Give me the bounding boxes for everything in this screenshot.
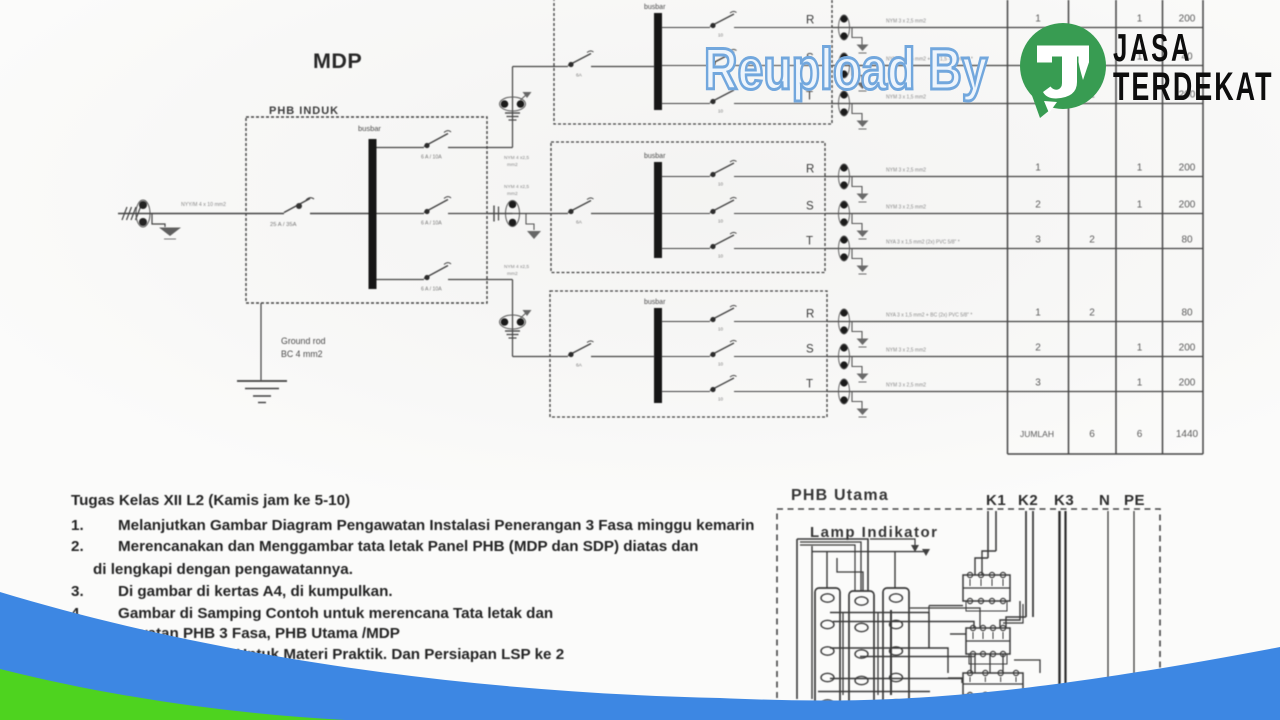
wire C1 left drop <box>928 606 930 648</box>
wire vert a <box>842 613 844 695</box>
wire lamp feed a <box>797 539 868 591</box>
wire cross 3 <box>910 608 980 628</box>
wire run to table g1 w3 <box>832 103 1203 105</box>
wire lamp feed d <box>800 545 855 591</box>
lamp terminal symbol g2 w3 <box>840 236 847 243</box>
ground at service entrance <box>152 214 165 228</box>
wire cross 6 <box>830 679 962 684</box>
ground at middle feed junction <box>520 214 534 231</box>
wire SDP3 S out <box>734 356 827 358</box>
supply junction dots <box>139 201 147 209</box>
wire run to table g2 w3 <box>825 248 1203 250</box>
breaker SDP1 S <box>710 52 734 65</box>
wire C2 left entry <box>950 633 966 635</box>
ground hook g3 w2 <box>852 357 862 374</box>
wire C1-C2 jog a <box>1000 601 1020 628</box>
contactor K1 <box>963 575 1010 601</box>
ground small at riser junction <box>521 94 528 100</box>
wire SDP3 T out <box>734 391 827 393</box>
junction meter on riser <box>501 318 509 326</box>
logo T glyph <box>1037 46 1089 57</box>
wire busbar stub MDP out 3 <box>377 279 425 281</box>
wire run to table g3 w3 <box>827 391 1203 393</box>
svg-text:TERDEKAT: TERDEKAT <box>1113 65 1274 109</box>
ground hook g2 w1 <box>852 177 862 194</box>
wire SDP 1 input <box>554 66 568 68</box>
wire cross 1 <box>830 613 929 649</box>
wire cross 5 <box>860 657 971 674</box>
wire vert b <box>877 613 879 695</box>
PE line <box>1133 511 1135 713</box>
wire SDP1 S out <box>734 65 832 67</box>
wire C3 left entry <box>948 677 963 679</box>
wire under C2 b <box>989 654 991 673</box>
busbar SDP 2 <box>654 162 662 258</box>
SDP panel box 1 <box>554 0 832 124</box>
breaker MDP out 1 <box>424 134 448 147</box>
wire SDP1 T out <box>734 103 832 105</box>
ground hook g3 w1 <box>852 322 862 339</box>
wire busbar stub MDP out 1 <box>377 147 425 149</box>
wire busbar stub SDP1 R <box>662 27 711 29</box>
wire K1 hook a <box>975 558 988 575</box>
wire lamp feed c <box>812 551 926 553</box>
K2 feeder lines <box>1025 511 1027 617</box>
junction meter on middle feed <box>493 206 495 222</box>
wire K2 into C2 <box>1006 617 1026 628</box>
wire C1 left entry <box>929 605 963 607</box>
wire run to table g1 w2 <box>832 65 1203 67</box>
busbar SDP 3 <box>654 308 662 403</box>
wire cross 2 <box>833 622 974 629</box>
breaker SDP 1 input <box>568 54 591 66</box>
wire busbar stub SDP3 R <box>662 321 711 323</box>
wire vert c <box>890 610 892 695</box>
ground rod earth symbol <box>237 380 287 382</box>
wire K1 hook b <box>982 551 996 575</box>
breaker SDP3 T <box>710 378 734 391</box>
breaker SDP1 R <box>710 14 734 27</box>
task item 5 <box>150 646 564 663</box>
wire busbar stub SDP3 T <box>662 391 711 393</box>
wire under C2 c <box>1002 654 1004 673</box>
wire busbar stub MDP out 2 <box>377 213 425 215</box>
wire riser up to SDP1 <box>512 67 514 148</box>
wire lamp feed b <box>800 542 861 591</box>
wire busbar stub SDP3 S <box>662 356 711 358</box>
wire left drop a <box>796 539 798 699</box>
breaker SDP 3 input <box>568 344 591 356</box>
ground hook g2 w2 <box>852 214 862 231</box>
breaker main incoming 25A <box>284 199 310 213</box>
logo tail <box>1030 90 1056 118</box>
blue wave <box>0 592 1280 720</box>
wire left drop b <box>811 546 813 699</box>
ground hook g1 w3 <box>852 104 862 121</box>
logo circle <box>1020 23 1106 118</box>
SDP panel box 3 <box>550 291 827 417</box>
lamp terminal symbol g1 w1 <box>840 15 847 22</box>
wire busbar stub SDP2 S <box>662 213 711 215</box>
wire strip3 top <box>894 552 896 588</box>
lamp terminal symbol g2 w2 <box>840 201 847 208</box>
ground hook g1 w1 <box>852 28 862 45</box>
wire arrow feed <box>870 539 915 545</box>
wire riser down to SDP3 <box>512 280 514 357</box>
ground hook g3 w3 <box>852 392 862 409</box>
task item 4 <box>71 605 84 622</box>
watermark Reupload By <box>704 36 988 103</box>
breaker MDP out 3 <box>424 266 448 279</box>
wire SDP2 R out <box>734 176 825 178</box>
breaker MDP out 2 <box>424 200 448 213</box>
table vertical lines <box>1007 0 1009 454</box>
ground hook g1 w2 <box>852 66 862 83</box>
wire run to table g3 w1 <box>827 321 1203 323</box>
arrowhead 1 <box>922 549 930 556</box>
wire SDP 2 input <box>551 213 568 215</box>
wire SDP2 S out <box>734 213 825 215</box>
wire middle feed to SDP2 <box>487 213 551 215</box>
breaker SDP2 R <box>710 163 734 176</box>
wire run to table g2 w2 <box>825 213 1203 215</box>
terminal strip 1 <box>815 588 840 714</box>
task item 1 <box>71 517 84 534</box>
breaker SDP2 T <box>710 235 734 248</box>
K1 feeder lines <box>987 511 989 558</box>
wire cross 7 <box>818 691 930 693</box>
wire run to table g2 w1 <box>825 176 1203 178</box>
wire SDP1 R out <box>734 27 832 29</box>
wire jog <box>837 558 863 591</box>
breaker SDP1 T <box>710 90 734 103</box>
wire SDP3 R out <box>734 321 827 323</box>
wire busbar stub SDP2 T <box>662 248 711 250</box>
wire panel ground <box>260 303 262 380</box>
lamp terminal symbol g3 w2 <box>840 344 847 351</box>
wire strip1 top <box>826 552 828 588</box>
wire busbar stub SDP1 T <box>662 103 711 105</box>
PHB INDUK panel box <box>246 117 487 303</box>
wire MDP out 2 to edge <box>448 213 513 215</box>
wire C1-C2 jog b <box>1003 604 1023 623</box>
supply service entrance symbol <box>122 207 141 220</box>
wire SDP 3 input <box>550 356 568 358</box>
green wave <box>0 669 345 720</box>
wire breaker to busbar <box>310 213 369 215</box>
terminal strip 3 <box>883 588 909 714</box>
task list heading <box>71 492 350 509</box>
lamp terminal symbol g1 w2 <box>840 53 847 60</box>
ground hook g2 w3 <box>852 249 862 266</box>
wire cross 4 <box>830 648 948 673</box>
task item 3 <box>71 583 84 600</box>
N line <box>1107 511 1109 713</box>
wire run to table g3 w2 <box>827 356 1203 358</box>
wire busbar stub SDP1 S <box>662 65 711 67</box>
wire SDP2 T out <box>734 248 825 250</box>
terminal strip 2 <box>849 591 874 714</box>
busbar MDP <box>369 139 377 289</box>
contactor K2 <box>966 628 1010 654</box>
ground small at riser junction <box>521 312 528 318</box>
wire MDP out 3 to edge <box>448 279 513 281</box>
table bottom line <box>1008 453 1204 455</box>
K3 feeder lines <box>1058 511 1060 690</box>
breaker SDP2 S <box>710 200 734 213</box>
lamp terminal symbol g2 w1 <box>840 164 847 171</box>
task item 2 <box>71 538 84 555</box>
wire MDP out 1 to edge <box>448 147 513 149</box>
lamp terminal symbol g3 w3 <box>840 379 847 386</box>
wire incoming supply <box>118 213 284 215</box>
svg-text:JASA: JASA <box>1113 27 1192 71</box>
lamp terminal symbol g1 w3 <box>840 91 847 98</box>
contactor K3 <box>963 673 1023 695</box>
junction meter on riser <box>501 100 509 108</box>
breaker SDP 2 input <box>568 201 591 213</box>
wire C3 right jog <box>1014 660 1040 673</box>
breaker SDP3 S <box>710 343 734 356</box>
arrowhead 2 <box>911 545 919 552</box>
wire run to table g1 w1 <box>832 27 1203 29</box>
busbar SDP 1 <box>654 13 662 110</box>
wire busbar stub SDP2 R <box>662 176 711 178</box>
wire under C2 a <box>974 654 976 673</box>
breaker SDP3 R <box>710 308 734 321</box>
SDP panel box 2 <box>551 142 825 273</box>
lamp terminal symbol g3 w1 <box>840 309 847 316</box>
PHB Utama dashed enclosure <box>777 509 1160 714</box>
